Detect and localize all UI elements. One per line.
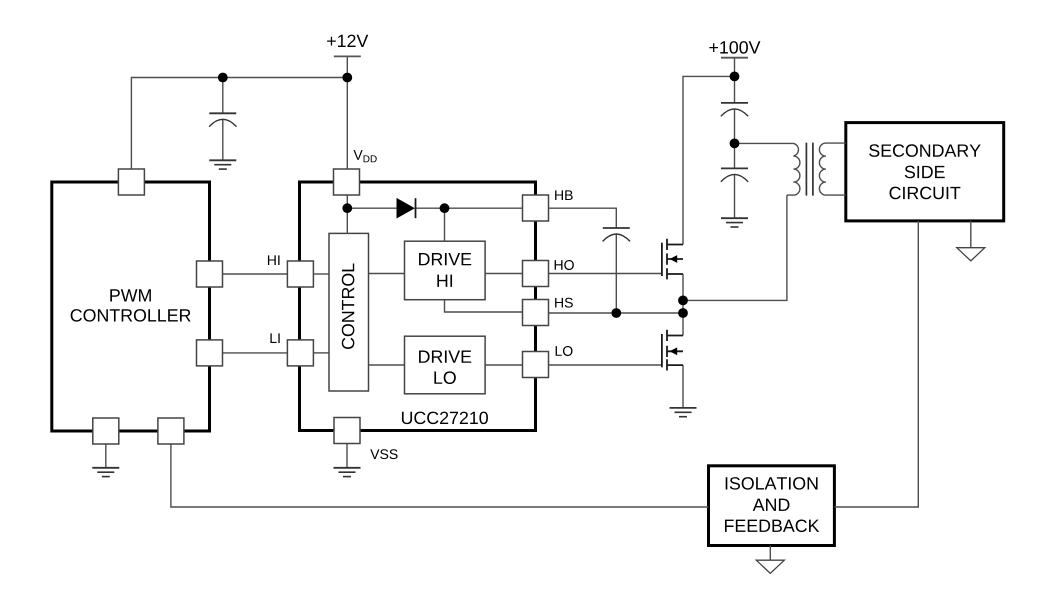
transistor Q2 low-side NMOS	[662, 330, 683, 371]
diode D1 bootstrap	[397, 198, 416, 219]
wire PWM feedback pin down and right to isolation block	[171, 444, 709, 507]
wire Q1 source to switch node	[682, 274, 684, 313]
wire HS pin to switch node	[549, 312, 684, 314]
pin VSS	[334, 418, 360, 444]
node junction +12V rail at bypass cap	[218, 73, 228, 83]
label HO	[555, 260, 574, 270]
wire HI PWM pin to IC HI pin	[223, 273, 288, 275]
wire bypass cap to ground	[222, 119, 224, 160]
label CONTROL rotated	[342, 263, 355, 349]
node junction +12V rail above VDD	[342, 73, 352, 83]
label VSS	[370, 449, 397, 459]
pin PWM HI output	[197, 261, 223, 287]
supply +12V	[334, 55, 361, 57]
wire from PWM top pin to +12V rail	[131, 78, 347, 171]
ISOLATION AND FEEDBACK block	[709, 466, 835, 546]
node switch node upper junction	[678, 296, 688, 306]
wire +12V rail down to VDD pin	[346, 78, 348, 171]
transistor Q1 high-side NMOS	[662, 239, 683, 280]
wire switch node to Q2 drain	[682, 313, 684, 336]
PWM controller block	[52, 182, 210, 431]
node between bus capacitors	[730, 139, 740, 149]
wire switch node to transformer primary return	[683, 195, 787, 300]
label UCC27210	[402, 412, 488, 425]
wire Q2 source to ground	[682, 365, 684, 408]
pin PWM ground	[93, 418, 119, 444]
wire bootstrap capacitor to HS node	[615, 234, 617, 313]
wire CONTROL to DRIVE LO	[369, 364, 405, 366]
capacitor bus lower	[721, 168, 748, 181]
wire +100V node to Q1 drain	[683, 76, 735, 244]
pin IC HI input	[287, 261, 313, 287]
label HB	[555, 190, 573, 200]
wire HO pin to Q1 gate	[549, 273, 662, 275]
transformer T1 secondary winding	[819, 143, 845, 195]
ground below VSS pin	[334, 468, 361, 477]
label SECONDARY SIDE CIRCUIT	[869, 144, 981, 157]
label LO	[556, 346, 573, 356]
wire secondary block to isolation block	[834, 221, 918, 507]
supply +100V	[721, 57, 748, 59]
wire +100V node to cap C2	[734, 76, 736, 103]
wire DRIVE LO to LO pin	[485, 364, 522, 366]
wire +12V supply stem	[346, 56, 348, 77]
label HS	[555, 298, 573, 308]
label ISOLATION AND FEEDBACK	[726, 477, 818, 490]
pin LO	[523, 352, 549, 378]
wire C2 to mid node	[734, 109, 736, 143]
capacitor VDD bypass	[209, 113, 236, 126]
pin HS	[523, 300, 549, 326]
wire IC LI pin to CONTROL	[313, 352, 329, 354]
wire secondary block ground stem	[970, 221, 972, 248]
label HI	[268, 255, 280, 265]
wire HB pin to bootstrap capacitor	[549, 208, 617, 228]
block CONTROL	[329, 233, 369, 391]
capacitor bootstrap HB-HS	[603, 228, 630, 241]
ground below Q2 source	[670, 408, 697, 417]
wire LI PWM pin to IC LI pin	[223, 352, 288, 354]
block DRIVE HI	[405, 241, 486, 300]
transformer T1 primary winding	[735, 143, 800, 195]
wire IC HI pin to CONTROL	[313, 273, 329, 275]
ground below PWM controller pin	[92, 468, 119, 477]
chassis ground below secondary block	[957, 248, 985, 261]
node bootstrap cap on HS wire	[611, 308, 621, 318]
label DRIVE HI	[419, 253, 471, 265]
wire LO pin to Q2 gate	[549, 364, 663, 366]
wire HB node down to DRIVE HI block	[444, 208, 446, 241]
ground below bus capacitors	[721, 218, 748, 227]
gate driver IC UCC27210 outline	[300, 182, 536, 431]
wire bypass cap branch down from node	[222, 78, 224, 114]
pin HB	[523, 195, 549, 221]
pin IC LI input	[287, 340, 313, 366]
block DRIVE LO	[405, 336, 486, 394]
pin PWM feedback input	[158, 418, 184, 444]
SECONDARY SIDE CIRCUIT block	[846, 123, 1004, 221]
wire DRIVE HI to HO pin	[485, 273, 522, 275]
node +100V rail junction	[730, 72, 740, 82]
wire HB node to HB pin	[445, 207, 523, 209]
label PWM CONTROLLER	[110, 289, 151, 301]
wire DRIVE HI to HS pin	[445, 300, 523, 312]
wire CONTROL to DRIVE HI	[369, 273, 405, 275]
node diode cathode / HB junction	[440, 203, 450, 213]
wire VDD pin to diode anode node	[346, 195, 348, 209]
label LI	[270, 333, 279, 343]
capacitor bus upper	[721, 103, 748, 116]
wire C3 to ground	[734, 174, 736, 218]
chassis ground below isolation block	[756, 560, 784, 573]
node switch node HS junction	[678, 308, 688, 318]
label VDD	[353, 150, 362, 160]
wire VSS pin to ground	[346, 444, 348, 468]
wire +100V supply stem	[734, 58, 736, 77]
wire mid node to cap C3	[734, 143, 736, 168]
wire diode anode segment	[347, 207, 396, 209]
pin PWM top supply	[118, 169, 144, 195]
label DRIVE LO	[419, 351, 471, 363]
pin HO	[523, 261, 549, 287]
pin PWM LI output	[197, 340, 223, 366]
wire PWM gnd pin stem	[105, 444, 107, 468]
pin VDD	[334, 169, 360, 195]
wire VDD node down to CONTROL block	[346, 208, 348, 233]
wire isolation block ground stem	[769, 546, 771, 561]
node VDD / diode anode junction	[342, 203, 352, 213]
transformer T1 core	[806, 143, 813, 196]
ground below VDD bypass cap	[209, 160, 236, 169]
wire diode cathode to HB node	[416, 207, 445, 209]
